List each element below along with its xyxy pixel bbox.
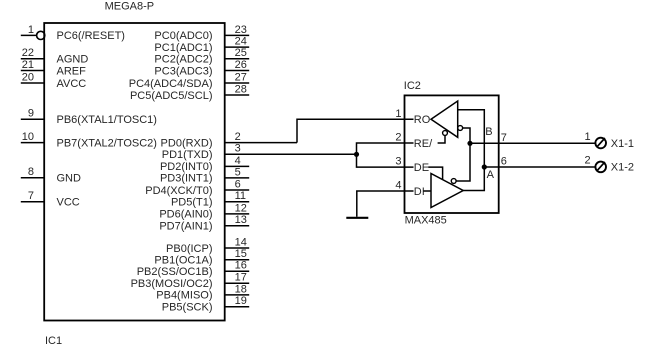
svg-text:IC2: IC2 xyxy=(404,80,421,92)
svg-text:PD4(XCK/T0): PD4(XCK/T0) xyxy=(145,185,212,197)
svg-text:PC2(ADC2): PC2(ADC2) xyxy=(154,54,212,66)
wire bubble to node B vertical xyxy=(456,143,470,181)
IC1 pin 24 PC1(ADC1) xyxy=(154,36,249,54)
IC1 pin 28 PC5(ADC5/SCL) xyxy=(130,83,249,101)
svg-text:PB7(XTAL2/TOSC2): PB7(XTAL2/TOSC2) xyxy=(57,137,157,149)
IC2 driver inverting-output bubble xyxy=(451,179,456,184)
wire bubble to node B xyxy=(463,128,470,143)
svg-text:PD5(T1): PD5(T1) xyxy=(171,197,213,209)
IC1 pin 5 PD3(INT1) xyxy=(160,166,249,184)
svg-text:AVCC: AVCC xyxy=(57,78,87,90)
IC IC2 MAX485 body xyxy=(405,95,499,213)
IC1 pin 21 AREF xyxy=(21,59,86,77)
IC1 pin 1 PC6(/RESET) xyxy=(21,24,125,42)
svg-text:AREF: AREF xyxy=(57,65,87,77)
svg-text:9: 9 xyxy=(28,108,34,120)
IC2 receiver inverting-input bubble xyxy=(458,126,463,131)
svg-text:PD3(INT1): PD3(INT1) xyxy=(160,173,213,185)
svg-text:6: 6 xyxy=(235,178,241,190)
wire RE/ to bubble xyxy=(438,135,445,143)
junction node B xyxy=(467,141,472,146)
svg-text:7: 7 xyxy=(501,132,507,144)
IC1 pin 14 PB0(ICP) xyxy=(166,236,249,254)
svg-text:X1-1: X1-1 xyxy=(611,138,634,150)
IC2 receiver triangle xyxy=(431,101,458,137)
IC1 pin 10 PB7(XTAL2/TOSC2) xyxy=(21,131,157,149)
IC1 pin 20 AVCC xyxy=(21,71,87,89)
svg-text:B: B xyxy=(485,126,492,138)
IC1 pin 7 VCC xyxy=(21,190,80,208)
IC1 pin 22 AGND xyxy=(21,47,89,65)
svg-text:MAX485: MAX485 xyxy=(405,215,447,227)
svg-text:2: 2 xyxy=(584,155,590,167)
wire DE to driver enable xyxy=(428,167,442,180)
svg-text:8: 8 xyxy=(28,166,34,178)
IC1 pin 16 PB2(SS/OC1B) xyxy=(137,260,250,278)
svg-text:PC5(ADC5/SCL): PC5(ADC5/SCL) xyxy=(130,90,213,102)
svg-text:26: 26 xyxy=(235,59,247,71)
svg-text:21: 21 xyxy=(22,59,34,71)
svg-text:12: 12 xyxy=(235,202,247,214)
IC1 pin 3 PD1(TXD) xyxy=(162,143,357,161)
value label MAX485 xyxy=(405,215,447,227)
IC1 pin 8 GND xyxy=(21,166,81,184)
svg-text:IC1: IC1 xyxy=(45,335,62,347)
IC1 pin 15 PB1(OC1A) xyxy=(154,248,249,266)
svg-text:17: 17 xyxy=(235,272,247,284)
IC2 pin 4 DI xyxy=(395,180,424,198)
svg-text:X1-2: X1-2 xyxy=(611,162,634,174)
IC1 pin 17 PB3(MOSI/OC2) xyxy=(131,272,250,290)
svg-text:PC1(ADC1): PC1(ADC1) xyxy=(154,42,212,54)
IC2 pin 3 DE xyxy=(395,156,429,174)
IC2 receiver input wire to node A xyxy=(458,110,485,166)
IC1 pin 12 PD6(AIN0) xyxy=(159,202,249,220)
wire RXD: IC1 pin2 to IC2 RO xyxy=(297,119,414,142)
IC1 pin 2 PD0(RXD) xyxy=(161,131,297,149)
svg-text:PD2(INT0): PD2(INT0) xyxy=(160,161,213,173)
IC2 driver triangle xyxy=(431,174,463,208)
IC1 pin 6 PD4(XCK/T0) xyxy=(145,178,249,196)
svg-text:PD6(AIN0): PD6(AIN0) xyxy=(159,209,212,221)
svg-text:PC3(ADC3): PC3(ADC3) xyxy=(154,65,212,77)
junction TXD node xyxy=(354,152,359,157)
svg-text:PB3(MOSI/OC2): PB3(MOSI/OC2) xyxy=(131,278,213,290)
svg-text:DI: DI xyxy=(414,186,425,198)
svg-text:RO: RO xyxy=(414,114,431,126)
svg-text:PD1(TXD): PD1(TXD) xyxy=(162,149,213,161)
junction node A xyxy=(482,164,487,169)
svg-text:1: 1 xyxy=(584,131,590,143)
svg-text:PB5(SCK): PB5(SCK) xyxy=(162,302,213,314)
svg-text:7: 7 xyxy=(28,190,34,202)
svg-text:3: 3 xyxy=(395,156,401,168)
svg-text:RE/: RE/ xyxy=(414,138,433,150)
svg-text:AGND: AGND xyxy=(57,54,89,66)
svg-text:PB2(SS/OC1B): PB2(SS/OC1B) xyxy=(137,266,213,278)
svg-text:PB4(MISO): PB4(MISO) xyxy=(156,290,212,302)
IC1 pin 9 PB6(XTAL1/TOSC1) xyxy=(21,108,157,126)
IC1 pin 25 PC2(ADC2) xyxy=(154,47,249,65)
svg-text:16: 16 xyxy=(235,260,247,272)
svg-text:10: 10 xyxy=(22,131,34,143)
designator IC1 xyxy=(45,335,62,347)
svg-text:PD0(RXD): PD0(RXD) xyxy=(161,137,213,149)
svg-text:MEGA8-P: MEGA8-P xyxy=(105,1,155,13)
svg-text:3: 3 xyxy=(235,143,241,155)
svg-text:24: 24 xyxy=(235,36,247,48)
svg-text:15: 15 xyxy=(235,248,247,260)
IC1 pin 13 PD7(AIN1) xyxy=(159,214,249,232)
terminal X1-2 xyxy=(584,155,634,174)
designator IC2 xyxy=(404,80,421,92)
IC1 pin 23 PC0(ADC0) xyxy=(154,24,249,42)
svg-text:2: 2 xyxy=(235,131,241,143)
IC1 pin 26 PC3(ADC3) xyxy=(154,59,249,77)
svg-text:2: 2 xyxy=(395,132,401,144)
svg-text:PC0(ADC0): PC0(ADC0) xyxy=(154,30,212,42)
IC1 pin 27 PC4(ADC4/SDA) xyxy=(129,71,249,89)
svg-text:DE: DE xyxy=(414,162,429,174)
svg-text:PB6(XTAL1/TOSC1): PB6(XTAL1/TOSC1) xyxy=(57,114,157,126)
svg-text:PC6(/RESET): PC6(/RESET) xyxy=(57,30,125,42)
svg-text:19: 19 xyxy=(235,295,247,307)
terminal X1-1 xyxy=(584,131,634,150)
svg-text:PC4(ADC4/SDA): PC4(ADC4/SDA) xyxy=(129,78,213,90)
svg-text:A: A xyxy=(487,169,495,181)
wire DI to ground xyxy=(357,191,414,217)
IC1 pin 4 PD2(INT0) xyxy=(160,155,249,173)
IC2 pin 2 RE/ xyxy=(395,132,433,150)
svg-text:14: 14 xyxy=(235,236,247,248)
svg-text:1: 1 xyxy=(395,108,401,120)
svg-text:PB1(OC1A): PB1(OC1A) xyxy=(154,255,212,267)
wire TXD vertical to RE/ and DE xyxy=(357,143,414,167)
net label A xyxy=(487,169,495,181)
svg-text:22: 22 xyxy=(22,47,34,59)
svg-text:GND: GND xyxy=(57,173,82,185)
IC2 pin 7 B wire to X1-1 xyxy=(470,132,595,144)
svg-text:5: 5 xyxy=(235,166,241,178)
IC1 pin 18 PB4(MISO) xyxy=(156,283,249,301)
IC2 RE/ enable bubble xyxy=(443,131,448,136)
svg-text:6: 6 xyxy=(501,156,507,168)
svg-text:13: 13 xyxy=(235,214,247,226)
IC1 pin 19 PB5(SCK) xyxy=(162,295,249,313)
svg-text:28: 28 xyxy=(235,83,247,95)
net label B xyxy=(485,126,492,138)
svg-text:PB0(ICP): PB0(ICP) xyxy=(166,243,212,255)
value label MEGA8-P xyxy=(105,1,155,13)
svg-text:VCC: VCC xyxy=(57,197,80,209)
svg-text:4: 4 xyxy=(235,155,241,167)
IC2 pin 1 RO xyxy=(395,108,430,126)
IC1 pin 11 PD5(T1) xyxy=(171,190,249,208)
ground symbol xyxy=(346,217,368,219)
IC2 pin 6 A wire to X1-2 xyxy=(484,156,594,168)
svg-text:23: 23 xyxy=(235,24,247,36)
wire driver output to node A xyxy=(463,167,484,191)
svg-text:27: 27 xyxy=(235,71,247,83)
svg-text:18: 18 xyxy=(235,283,247,295)
svg-text:4: 4 xyxy=(395,180,401,192)
svg-text:20: 20 xyxy=(22,71,34,83)
svg-text:25: 25 xyxy=(235,47,247,59)
svg-text:1: 1 xyxy=(28,24,34,36)
svg-text:11: 11 xyxy=(235,190,246,202)
IC IC1 MEGA8-P body xyxy=(44,23,225,321)
svg-text:PD7(AIN1): PD7(AIN1) xyxy=(159,221,212,233)
wire DI to driver input xyxy=(424,190,432,192)
